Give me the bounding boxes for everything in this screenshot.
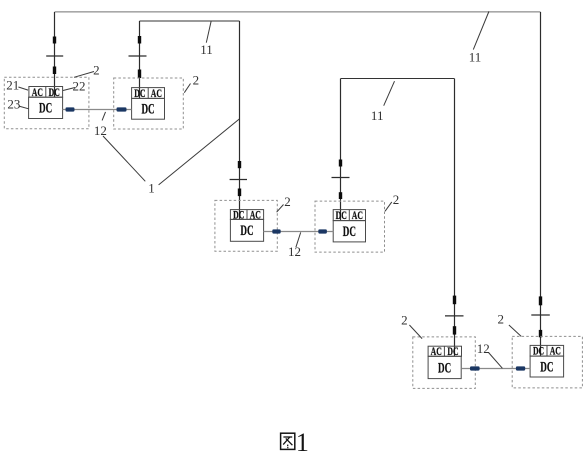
fuse/contact bar (upper) (53, 37, 56, 44)
svg-text:AC: AC (32, 85, 43, 99)
fuse/contact bar (lower) (53, 67, 56, 75)
leader 12 bottom (489, 353, 503, 369)
leader 11 bus3 (384, 81, 395, 106)
svg-text:AC: AC (550, 344, 561, 358)
DC connector (left) (470, 366, 480, 370)
converter unit 2 (mid-right) : dashed enclosure (315, 201, 385, 252)
wire: AC feeder drop to unit 5 (445, 79, 464, 357)
svg-text:12: 12 (288, 244, 301, 259)
svg-text:12: 12 (94, 123, 107, 138)
svg-text:AC: AC (352, 208, 363, 222)
leader 11 bus1 (473, 12, 489, 50)
AC bus 11 (second) (140, 20, 240, 22)
svg-text:DC: DC (438, 360, 451, 376)
svg-text:11: 11 (371, 108, 384, 123)
fuse/contact bar (upper) (138, 36, 141, 44)
svg-text:2: 2 (193, 72, 200, 87)
AC bus 11 (top) (55, 11, 541, 13)
svg-text:2: 2 (284, 194, 291, 209)
wire: AC feeder drop to unit 6 (531, 12, 550, 356)
AC bus 11 (third) (341, 78, 455, 80)
svg-text:2: 2 (401, 313, 408, 328)
converter unit 2 (mid-left) : dashed enclosure (215, 200, 277, 251)
converter unit 2 (top-left) : dashed enclosure (4, 77, 89, 128)
converter unit 2 (bottom-left) : AC/DC converter box (428, 344, 461, 358)
wire: AC feeder drop to unit 4 (332, 79, 350, 221)
converter unit 2 (top-right) : DC/AC converter box (132, 86, 165, 100)
wire: DC tie line 12 (middle pair) (264, 231, 334, 233)
disconnect switch tick (445, 315, 464, 317)
svg-text:11: 11 (200, 42, 213, 57)
wire: AC feeder drop to unit 2 (129, 21, 147, 98)
svg-text:DC: DC (533, 344, 544, 358)
leader 1 left arm (103, 136, 145, 181)
leader 2 unit6 (509, 325, 521, 336)
leader 2 unit4 (385, 202, 392, 211)
converter unit 2 (bottom-right) : DC/DC stage box (530, 356, 564, 377)
disconnect switch tick (332, 177, 350, 179)
leader 12 top (102, 112, 105, 121)
wire: DC tie line 12 (bottom pair) (461, 368, 530, 370)
converter unit 2 (bottom-left) : DC/DC stage box (428, 356, 461, 378)
svg-text:2: 2 (497, 311, 504, 326)
fuse/contact bar (lower) (238, 189, 241, 197)
DC connector (left) (272, 229, 280, 233)
svg-text:DC: DC (39, 101, 52, 117)
fuse/contact bar (upper) (339, 160, 342, 167)
svg-text:DC: DC (336, 208, 347, 222)
svg-text:DC: DC (240, 223, 253, 239)
svg-text:2: 2 (93, 63, 100, 78)
fuse/contact bar (upper) (238, 161, 241, 168)
disconnect switch tick (531, 314, 550, 316)
leader 22 (63, 88, 75, 91)
wire: AC feeder drop to unit 1 (46, 12, 63, 97)
svg-text:DC: DC (49, 85, 60, 99)
svg-text:1: 1 (148, 180, 155, 195)
converter unit 2 (bottom-left) : dashed enclosure (413, 337, 476, 389)
wire: AC feeder drop to unit 3 (230, 21, 247, 219)
leader 23 (19, 106, 29, 109)
disconnect switch tick (46, 55, 63, 57)
DC connector (left) (66, 107, 75, 111)
DC connector (right) (516, 366, 525, 370)
fuse/contact bar (lower) (539, 330, 542, 337)
fuse/contact bar (lower) (453, 326, 456, 334)
wire: DC tie line 12 (top pair) (63, 109, 132, 111)
converter unit 2 (top-left) : AC/DC converter box (29, 85, 63, 99)
fuse/contact bar (lower) (339, 192, 342, 199)
fuse/contact bar (upper) (539, 296, 542, 305)
leader 2 unit3 (277, 205, 284, 213)
svg-text:22: 22 (73, 79, 86, 94)
converter unit 2 (mid-right) : DC/AC converter box (333, 208, 365, 222)
fuse/contact bar (upper) (453, 296, 456, 305)
converter unit 2 (top-right) : dashed enclosure (114, 78, 184, 129)
leader 2 unit2 (184, 84, 190, 93)
svg-text:DC: DC (343, 224, 356, 240)
converter unit 2 (bottom-right) : dashed enclosure (512, 336, 582, 388)
svg-text:11: 11 (469, 49, 482, 64)
svg-text:2: 2 (393, 192, 400, 207)
converter unit 2 (mid-left) : DC/DC stage box (230, 219, 263, 241)
leader 2 unit1 (74, 72, 94, 78)
leader 1 right arm (159, 119, 240, 185)
leader 2 unit5 (409, 325, 422, 339)
converter unit 2 (top-left) : DC/DC stage box (29, 97, 63, 118)
converter unit 2 (mid-left) : DC/AC converter box (230, 207, 263, 221)
svg-text:DC: DC (134, 86, 145, 100)
svg-text:AC: AC (151, 86, 162, 100)
leader 12 middle (296, 232, 301, 247)
svg-text:12: 12 (477, 341, 490, 356)
disconnect switch tick (129, 55, 147, 57)
svg-text:DC: DC (141, 102, 154, 118)
svg-text:DC: DC (540, 359, 553, 375)
svg-text:1: 1 (296, 428, 309, 457)
converter unit 2 (top-right) : DC/DC stage box (132, 98, 165, 119)
DC connector (right) (318, 229, 327, 233)
leader 21 (18, 87, 28, 90)
leader 11 bus2 (206, 21, 211, 43)
caption 图1 : hand-drawn 图 glyph (281, 433, 295, 449)
disconnect switch tick (230, 179, 247, 181)
DC connector (right) (117, 107, 127, 111)
converter unit 2 (bottom-right) : DC/AC converter box (530, 344, 564, 358)
svg-text:23: 23 (7, 96, 20, 111)
fuse/contact bar (lower) (138, 70, 141, 79)
converter unit 2 (mid-right) : DC/DC stage box (333, 221, 365, 242)
svg-text:21: 21 (6, 78, 19, 93)
